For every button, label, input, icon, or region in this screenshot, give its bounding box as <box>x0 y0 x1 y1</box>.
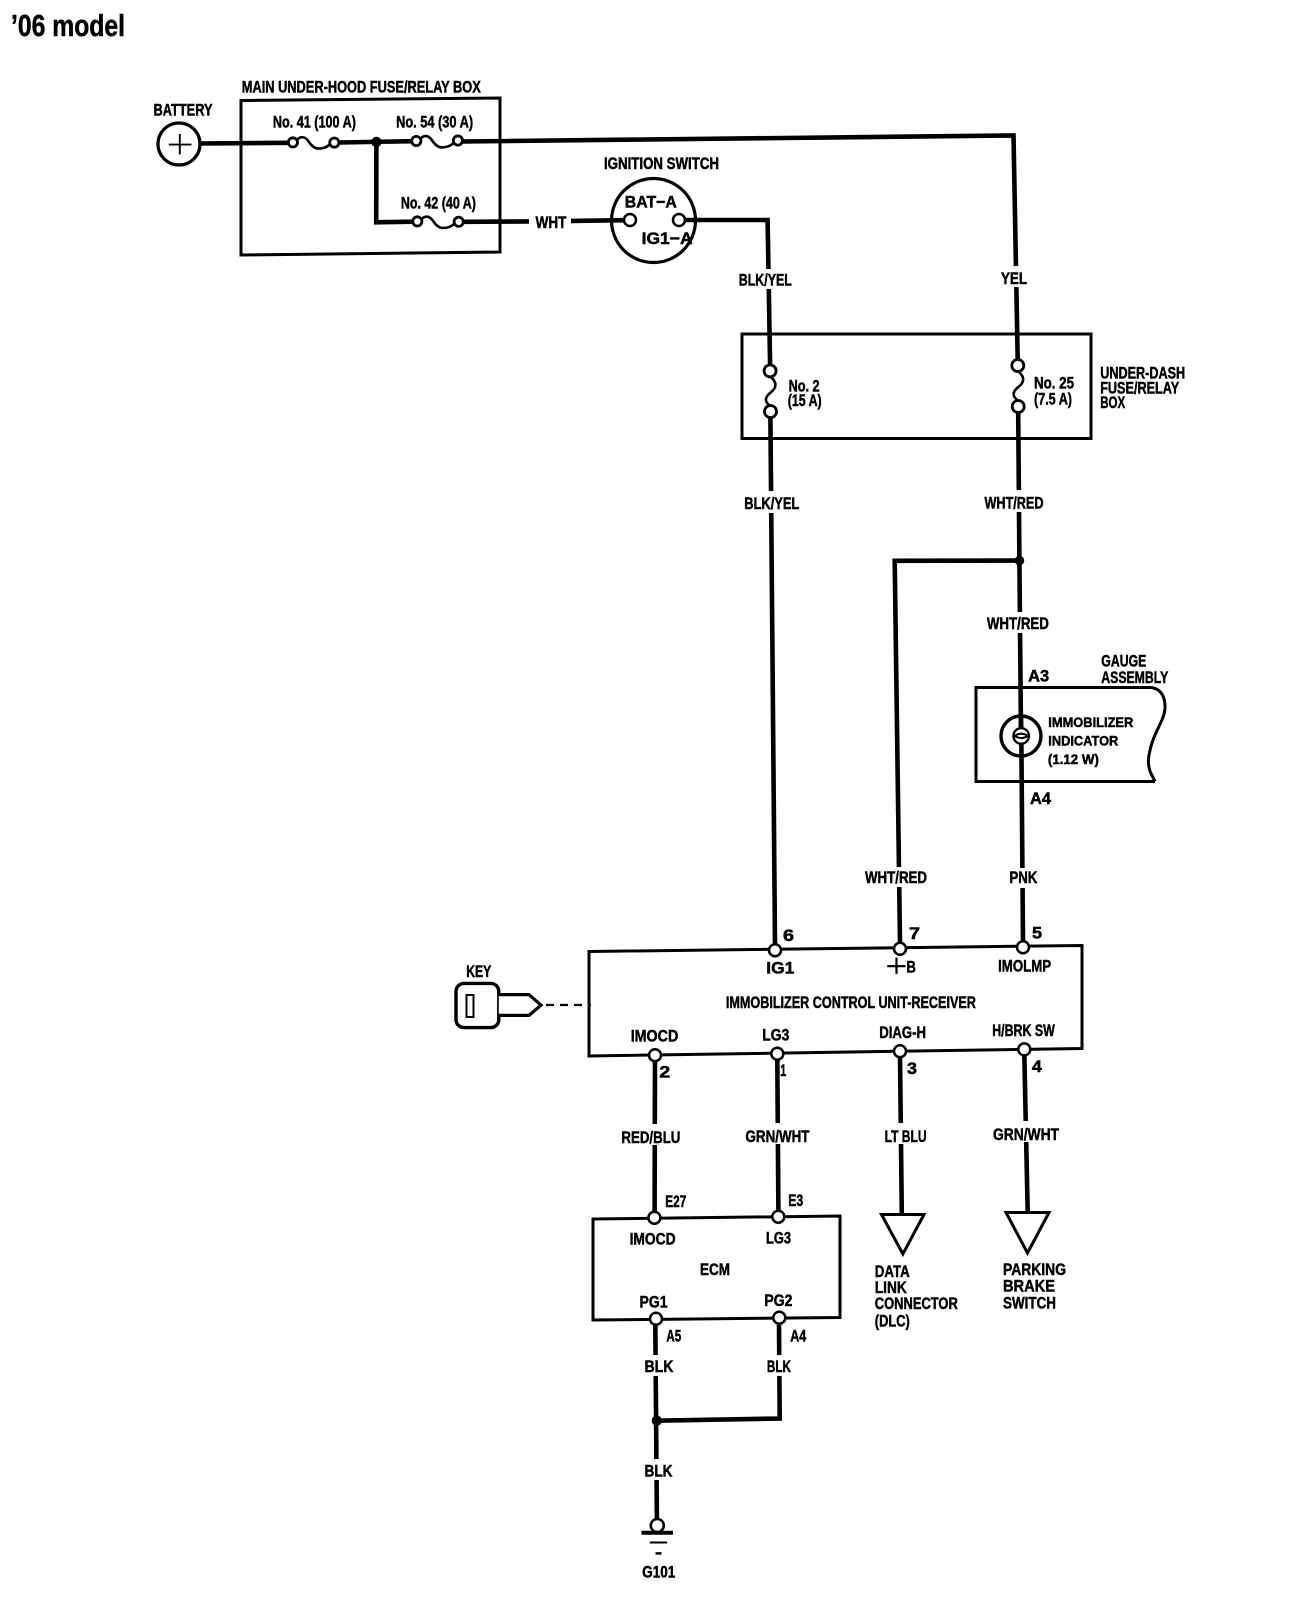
svg-text:IMOCD: IMOCD <box>630 1229 676 1248</box>
svg-text:PNK: PNK <box>1009 868 1038 887</box>
ground G101 <box>642 1519 676 1581</box>
svg-text:LT BLU: LT BLU <box>885 1127 927 1146</box>
wire junction down to bulb (WHT/RED) <box>1019 561 1021 736</box>
fuse No.41 (100 A) <box>273 113 356 149</box>
dashed link key to ICU <box>546 1004 591 1006</box>
svg-text:(15 A): (15 A) <box>788 391 822 410</box>
svg-text:MAIN UNDER-HOOD FUSE/RELAY BOX: MAIN UNDER-HOOD FUSE/RELAY BOX <box>242 77 481 96</box>
svg-text:PG2: PG2 <box>764 1291 792 1310</box>
wire ICU pin2 to ECM E27 (RED/BLU) <box>652 1060 657 1212</box>
svg-text:5: 5 <box>1032 924 1042 943</box>
svg-text:BLK: BLK <box>645 1357 675 1376</box>
svg-text:DIAG-H: DIAG-H <box>879 1023 926 1042</box>
svg-text:(7.5 A): (7.5 A) <box>1034 390 1072 409</box>
svg-text:BLK/YEL: BLK/YEL <box>744 494 799 513</box>
terminal BAT-A <box>624 214 636 226</box>
wire IG1-A to BLK/YEL vertical <box>685 220 771 371</box>
parking brake switch arrow <box>1003 1213 1066 1313</box>
svg-text:H/BRK SW: H/BRK SW <box>992 1021 1055 1040</box>
wire PG1 down to ground (BLK) <box>655 1325 657 1520</box>
data link connector arrow <box>875 1215 958 1331</box>
svg-text:BLK: BLK <box>767 1357 791 1376</box>
svg-text:LG3: LG3 <box>766 1229 791 1248</box>
svg-text:PG1: PG1 <box>640 1293 668 1312</box>
gauge assembly box (torn edge) <box>976 651 1169 781</box>
svg-text:BAT−A: BAT−A <box>625 192 677 211</box>
wire PG2 down and left to junction (BLK) <box>657 1325 780 1421</box>
svg-text:A3: A3 <box>1028 666 1049 685</box>
wire branch left and down to ICU pin7 <box>895 561 1020 943</box>
svg-text:WHT/RED: WHT/RED <box>865 868 927 887</box>
svg-text:LG3: LG3 <box>762 1026 789 1045</box>
immobilizer control unit-receiver box <box>589 946 1082 1057</box>
svg-text:BATTERY: BATTERY <box>154 101 213 120</box>
wire fuse41 to junction to fuse54 <box>339 141 413 142</box>
svg-text:IGNITION SWITCH: IGNITION SWITCH <box>604 154 719 173</box>
svg-text:IMOCD: IMOCD <box>631 1027 679 1046</box>
svg-text:ECM: ECM <box>700 1260 730 1279</box>
svg-text:IG1−A: IG1−A <box>642 229 693 248</box>
ECM box <box>593 1216 840 1320</box>
svg-text:E3: E3 <box>788 1191 803 1210</box>
svg-text:3: 3 <box>907 1059 917 1078</box>
svg-text:B: B <box>906 958 916 977</box>
key symbol <box>456 962 541 1028</box>
svg-text:No. 41 (100 A): No. 41 (100 A) <box>273 113 356 132</box>
junction node WHT/RED branch <box>1015 556 1025 566</box>
svg-text:GRN/WHT: GRN/WHT <box>993 1125 1059 1144</box>
svg-text:WHT/RED: WHT/RED <box>987 614 1049 633</box>
svg-text:BLK/YEL: BLK/YEL <box>739 271 792 290</box>
svg-text:’06 model: ’06 model <box>11 8 125 43</box>
svg-text:INDICATOR: INDICATOR <box>1048 733 1118 749</box>
svg-text:2: 2 <box>659 1063 670 1082</box>
ignition switch SW1 <box>604 154 719 263</box>
svg-text:WHT: WHT <box>536 213 567 232</box>
label YEL <box>997 266 1031 288</box>
fuse No.2 (15 A) <box>764 365 822 418</box>
svg-text:WHT/RED: WHT/RED <box>985 494 1044 513</box>
wire WHT label to ignition switch BAT-A <box>571 218 625 223</box>
label BLK/YEL upper <box>735 269 795 290</box>
svg-text:G101: G101 <box>642 1562 675 1581</box>
fuse No.42 (40 A) <box>401 193 476 228</box>
svg-text:IG1: IG1 <box>766 959 794 978</box>
svg-text:A4: A4 <box>790 1326 806 1345</box>
wire battery to fuse box <box>200 141 290 146</box>
svg-text:7: 7 <box>909 924 920 943</box>
wire ICU pin4 to parking brake switch (GRN/WHT) <box>1024 1054 1027 1212</box>
svg-text:IMOLMP: IMOLMP <box>998 957 1051 976</box>
svg-text:IMMOBILIZER: IMMOBILIZER <box>1048 714 1133 730</box>
under-dash fuse/relay box <box>742 334 1185 439</box>
wire junction down to fuse42 <box>376 142 413 222</box>
svg-text:ASSEMBLY: ASSEMBLY <box>1101 668 1168 687</box>
pin 6 IG1 <box>769 944 781 956</box>
main under-hood fuse/relay box <box>241 77 500 255</box>
svg-text:SWITCH: SWITCH <box>1003 1293 1056 1312</box>
svg-text:No. 54 (30 A): No. 54 (30 A) <box>396 113 473 132</box>
svg-text:1: 1 <box>780 1061 786 1080</box>
svg-text:(1.12 W): (1.12 W) <box>1048 751 1099 767</box>
svg-text:KEY: KEY <box>466 962 491 981</box>
label WHT/RED upper <box>980 490 1048 513</box>
wire fuse25 down to junction (WHT/RED) <box>1018 412 1019 561</box>
label BLK lower <box>640 1459 677 1481</box>
battery B1 <box>154 101 213 166</box>
wire fuse42 to WHT label <box>463 219 529 224</box>
terminal IG1-A <box>673 214 685 226</box>
svg-text:IMMOBILIZER CONTROL UNIT-RECEI: IMMOBILIZER CONTROL UNIT-RECEIVER <box>726 993 976 1012</box>
svg-text:GRN/WHT: GRN/WHT <box>746 1127 810 1146</box>
svg-text:4: 4 <box>1032 1057 1043 1076</box>
svg-text:RED/BLU: RED/BLU <box>621 1128 680 1147</box>
fuse No.25 (7.5 A) <box>1012 360 1074 413</box>
pin 5 IMOLMP <box>1017 941 1029 953</box>
wire fuse54 to top right corner (YEL feed) <box>463 136 1018 366</box>
label BLK/YEL lower <box>740 491 803 513</box>
wire bulb down to ICU pin5 (PNK) <box>1022 756 1024 942</box>
wire fuse2 down to ICU pin6 (BLK/YEL) <box>770 417 775 945</box>
pin 7 +B <box>894 943 906 955</box>
svg-text:A5: A5 <box>666 1326 681 1345</box>
svg-text:A4: A4 <box>1030 789 1052 808</box>
immobilizer indicator bulb (1.12 W) <box>1001 714 1133 767</box>
label WHT/RED branch <box>861 867 931 887</box>
svg-text:BLK: BLK <box>645 1462 674 1481</box>
fuse No.54 (30 A) <box>396 113 473 148</box>
wire ICU pin3 to DLC (LT BLU) <box>900 1056 902 1214</box>
label WHT/RED mid <box>982 612 1053 633</box>
svg-text:6: 6 <box>783 926 794 945</box>
junction node BLK <box>652 1416 662 1426</box>
svg-text:(DLC): (DLC) <box>875 1311 910 1330</box>
label PNK <box>1005 868 1042 888</box>
wire ICU pin1 to ECM E3 (GRN/WHT) <box>777 1059 778 1212</box>
svg-text:No. 42 (40 A): No. 42 (40 A) <box>401 193 476 212</box>
svg-text:E27: E27 <box>665 1192 686 1211</box>
svg-text:YEL: YEL <box>1001 269 1027 288</box>
svg-text:BOX: BOX <box>1100 393 1125 412</box>
pin E27 IMOCD <box>648 1212 660 1224</box>
pin E3 LG3 <box>772 1211 784 1223</box>
junction node (battery feed split) <box>371 137 381 147</box>
